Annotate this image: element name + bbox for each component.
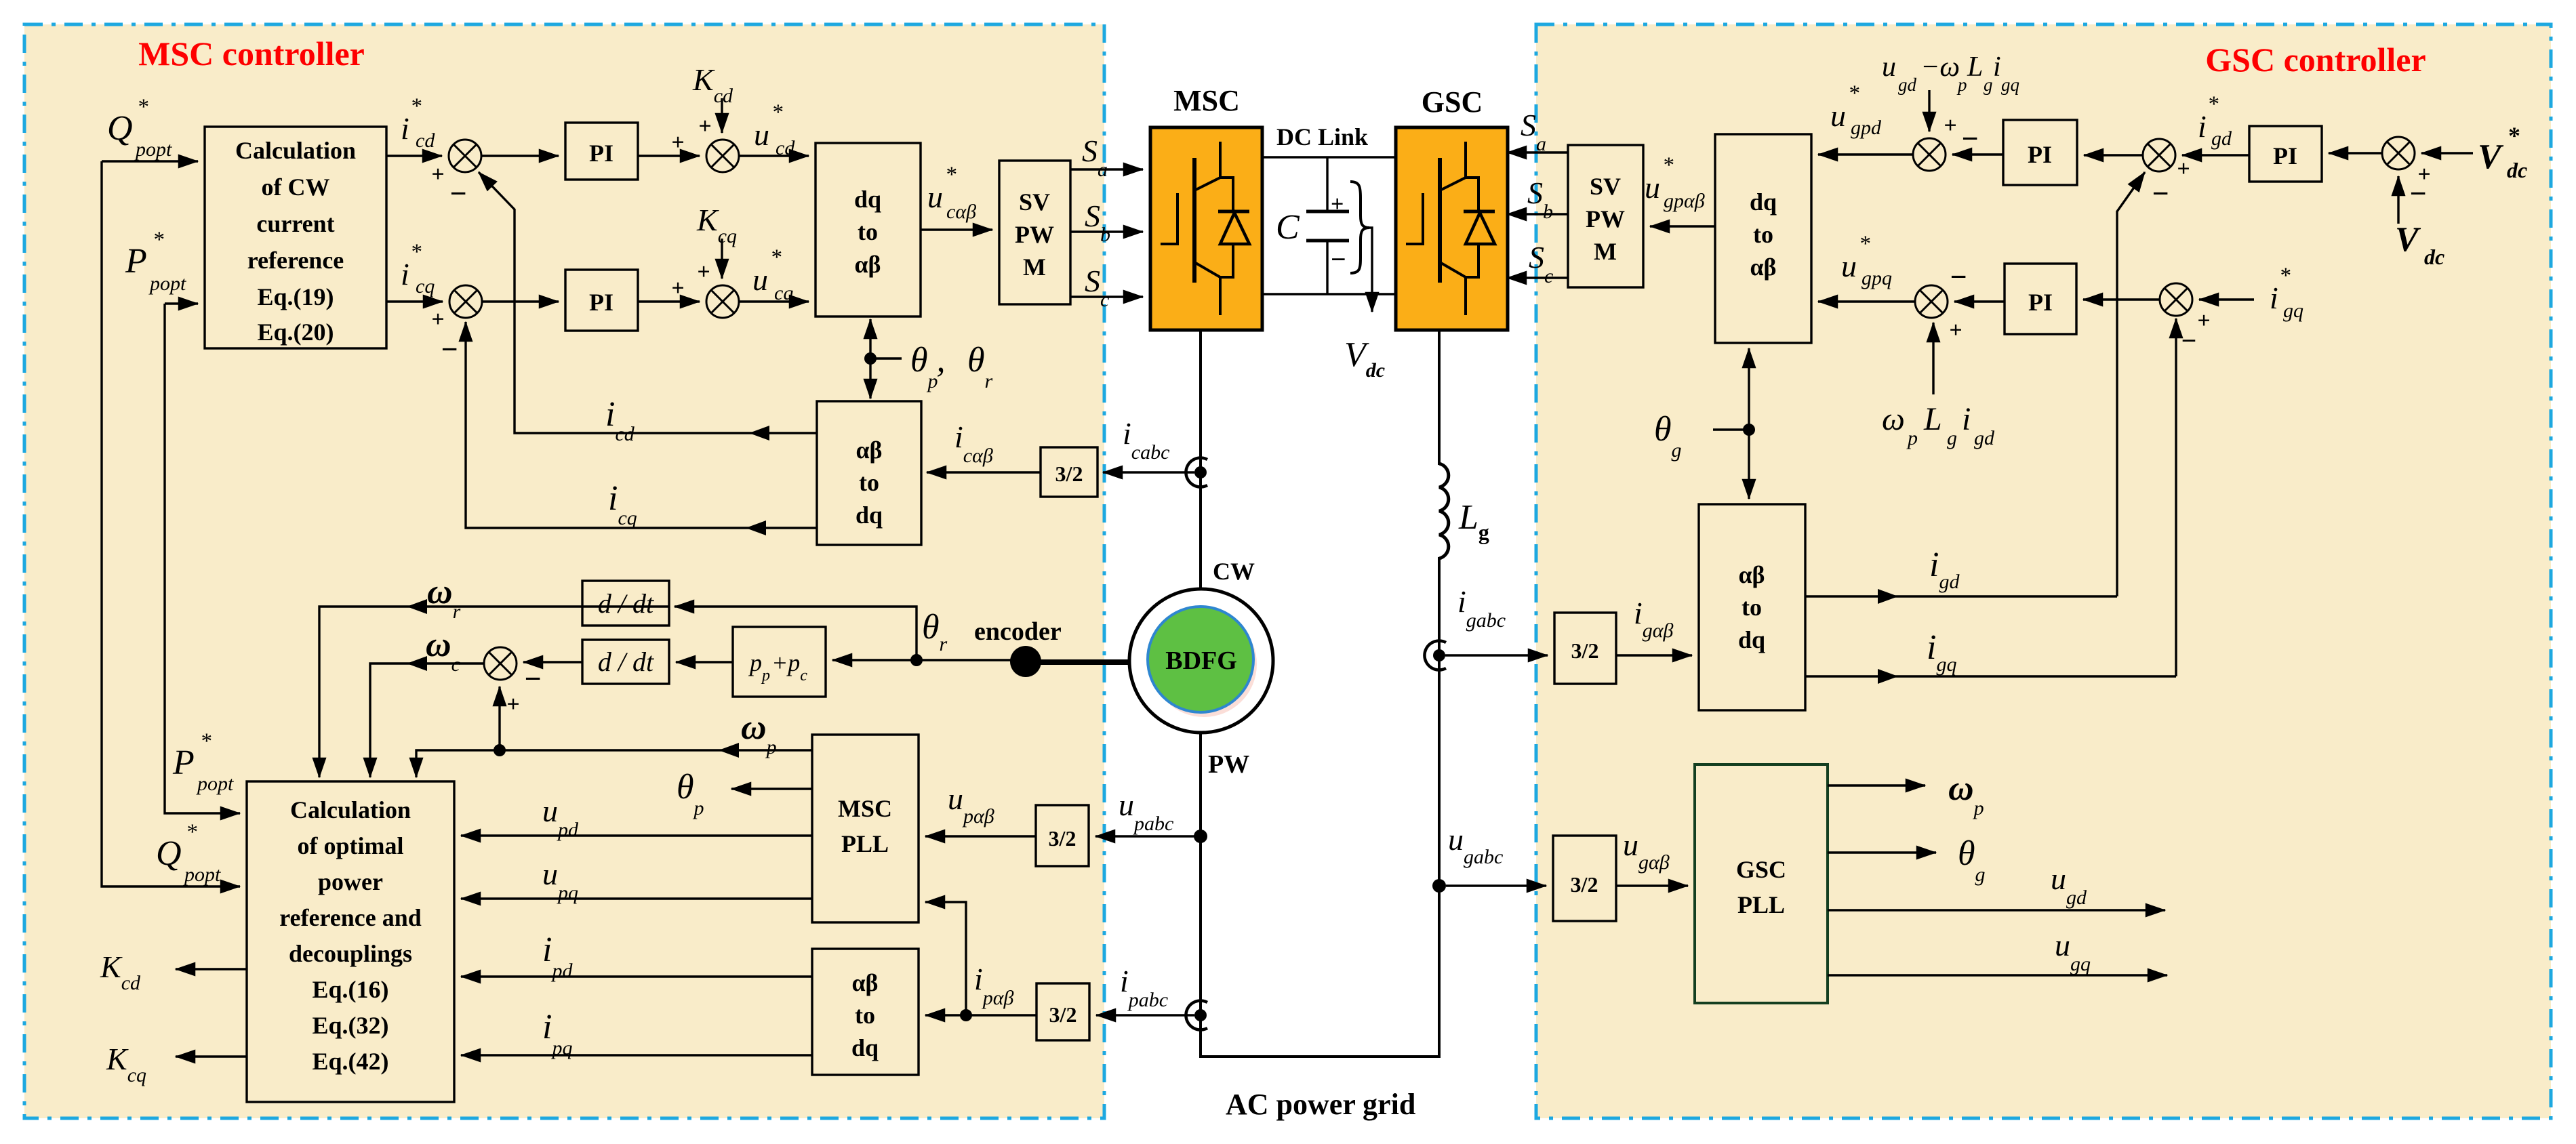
block: alpha-beta to dq (GSC) (1699, 504, 1805, 710)
svg-text:AC power grid: AC power grid (1226, 1088, 1415, 1121)
block: dq to alpha-beta (MSC) (816, 143, 921, 316)
block: PI (GSC d current) (2003, 120, 2077, 185)
svg-text:*: * (153, 228, 164, 252)
wire: S1 to PI1 (481, 155, 559, 157)
svg-text:−: − (1950, 260, 1967, 293)
svg-text:d / dt: d / dt (598, 588, 654, 619)
wire: theta_r from encoder to pp+pc (832, 659, 1020, 661)
svg-text:ω: ω (1882, 401, 1905, 437)
wire: Ppopt rail down (165, 304, 240, 813)
wire: u*gpab from dq box to SVPWM (1650, 225, 1715, 227)
svg-text:d / dt: d / dt (598, 647, 654, 677)
wire: ipab branch up into MSC PLL (925, 902, 966, 1015)
wire: PI to S9 (1954, 300, 2005, 302)
wire: S10 to PI (2083, 298, 2160, 300)
svg-text:u: u (1645, 170, 1660, 205)
wire: decoupling into S6 top (1928, 90, 1930, 131)
svg-text:gd: gd (2211, 127, 2232, 150)
GSC controller panel (dashed cyan frame, cream fill) (1536, 24, 2551, 1118)
svg-text:−: − (2181, 325, 2197, 356)
wire: i*cq from CW box to S2 (386, 300, 443, 302)
wire: upab from 3/2 to MSC PLL (925, 835, 1036, 837)
wire: S6 to dq box (u*gpd) (1818, 153, 1913, 155)
svg-text:P: P (125, 242, 147, 281)
wire: ipabc tap to 3/2 (1096, 1014, 1194, 1016)
wire: omega_p from MSC PLL across to optimal power box (416, 750, 812, 777)
svg-text:+: + (697, 260, 710, 285)
svg-text:*: * (945, 163, 957, 187)
svg-text:to: to (859, 469, 879, 496)
svg-text:+: + (671, 276, 684, 301)
wire: upd into optimal power box (461, 834, 812, 836)
wire: omega_c to optimal power box (370, 663, 484, 777)
wire: theta p/r double arrow between dq and ab blocks (869, 319, 871, 359)
svg-text:*: * (1848, 81, 1859, 106)
wire: Vdc feedback up into S8 (2397, 176, 2399, 224)
node: junction ipab branch (960, 1009, 972, 1021)
svg-text:+: + (671, 130, 684, 155)
wire: igq feedback up into S10 (2175, 319, 2177, 676)
node: junction on theta line (864, 352, 877, 365)
wire: u*cab from dq box to SVPWM (921, 228, 992, 230)
wire: upq into optimal power box (461, 897, 812, 899)
node: u_gabc tap on GSC leg (1432, 879, 1446, 893)
block: dq to alpha-beta (GSC) (1715, 134, 1811, 343)
summing junction S3 (ucd) (706, 140, 739, 172)
summing junction S10 (igq) (2160, 283, 2192, 316)
wire: S7 to PI (2084, 154, 2143, 156)
svg-text:i: i (401, 257, 409, 291)
svg-text:cd: cd (776, 137, 795, 159)
svg-text:i: i (1962, 401, 1971, 437)
wire: Kcd arrow into S3 (721, 98, 723, 133)
svg-text:reference and: reference and (279, 904, 422, 931)
wire: PI2 to S4 (638, 300, 700, 302)
svg-text:i: i (1993, 52, 2001, 83)
svg-text:+: + (431, 162, 444, 187)
svg-text:dq: dq (1750, 188, 1777, 216)
svg-text:Eq.(32): Eq.(32) (312, 1012, 388, 1039)
wire: MSC to CW winding (1199, 330, 1202, 589)
wire: icq feedback (to S2 from below) (466, 322, 817, 528)
svg-text:i: i (2198, 109, 2207, 144)
svg-text:decouplings: decouplings (289, 940, 412, 967)
wire: Kcq arrow into S4 (721, 239, 723, 279)
svg-text:to: to (858, 218, 878, 245)
svg-text:PI: PI (2273, 142, 2297, 169)
svg-text:cq: cq (774, 282, 793, 304)
svg-text:−: − (1961, 122, 1978, 155)
svg-text:PW: PW (1015, 221, 1054, 248)
summing junction S4 (ucq) (706, 285, 739, 318)
svg-text:gq: gq (2283, 300, 2303, 322)
wire: wpLgigd up into S9 (1932, 323, 1934, 394)
node: u_pabc tap on PW line (1194, 830, 1207, 843)
converter GSC (orange box with IGBT+diode) (1396, 127, 1508, 330)
svg-text:of optimal: of optimal (298, 832, 404, 859)
svg-text:dc: dc (2507, 158, 2527, 182)
wire: tick to theta label (870, 357, 902, 359)
svg-text:gd: gd (1974, 427, 1995, 449)
svg-text:dq: dq (851, 1034, 879, 1061)
svg-text:p: p (1956, 75, 1967, 95)
svg-text:MSC: MSC (1173, 84, 1240, 117)
wire: S4 to dq/ab box (739, 300, 809, 302)
wire: ipab from 3/2 to ab-dq box (925, 1014, 1037, 1016)
svg-text:αβ: αβ (1750, 253, 1776, 281)
svg-text:3/2: 3/2 (1055, 462, 1083, 486)
svg-text:g: g (1947, 427, 1957, 449)
svg-text:dq: dq (854, 186, 881, 213)
svg-text:*: * (1662, 153, 1674, 178)
svg-text:popt: popt (196, 773, 234, 795)
block: pp+pc (733, 627, 826, 697)
wire: ugabc tap to 3/2 (1446, 884, 1546, 886)
summing junction S8 (Vdc) (2382, 137, 2415, 169)
wire: theta_g tick (1713, 428, 1749, 430)
wire: theta_g up into dq-ab box (1748, 348, 1750, 430)
wire: encoder shaft to BDFG (1037, 659, 1130, 665)
svg-text:+: + (1949, 318, 1962, 343)
summing junction S9 (ugpq) (1915, 285, 1948, 318)
svg-text:−ω: −ω (1920, 52, 1960, 83)
svg-text:u: u (927, 180, 943, 214)
wire: GSC down leg lower (1438, 557, 1441, 1057)
wire: upabc tap to 3/2 (1095, 835, 1194, 837)
wire: S3 to dq/ab box (739, 155, 809, 157)
wire: DC link top rail (1262, 156, 1396, 158)
svg-text:BDFG: BDFG (1165, 647, 1237, 675)
node: encoder dot (1010, 646, 1041, 677)
svg-text:*: * (2508, 122, 2520, 149)
svg-text:current: current (256, 210, 334, 237)
wire: ugab 3/2 to GSC PLL (1616, 884, 1688, 886)
svg-text:αβ: αβ (856, 436, 882, 464)
wire: S9 to dq box (u*gpq) (1818, 300, 1915, 302)
wire: Sb to GSC (1507, 213, 1568, 215)
svg-text:u: u (752, 262, 768, 297)
block: 3/2 transform (ip) (1037, 983, 1089, 1040)
block: PI (DC voltage) (2249, 126, 2322, 182)
wire: BDFG to PW line (1199, 733, 1202, 1057)
wire: omega_p up into S5 (498, 687, 500, 750)
wire: icab from 3/2 to ab-dq box (927, 471, 1041, 473)
wire: Sb gate signal to MSC (1070, 230, 1143, 232)
wire: ipq into optimal power box (461, 1054, 812, 1056)
summing junction S6 (ugpd) (1913, 138, 1946, 171)
svg-text:encoder: encoder (974, 617, 1062, 646)
svg-text:i: i (401, 111, 409, 146)
svg-text:*: * (200, 729, 212, 754)
node: i_pabc measurement point on PW line (1186, 1001, 1207, 1030)
converter MSC (orange box with IGBT+diode) (1150, 127, 1262, 330)
svg-text:+: + (431, 307, 444, 332)
block: PI current controller d-axis (565, 123, 638, 180)
svg-text:*: * (137, 95, 148, 119)
svg-text:−: − (1331, 244, 1346, 274)
svg-text:L: L (1923, 401, 1942, 437)
block: SVPWM (MSC) (999, 161, 1070, 304)
node: i_gabc measurement point on GSC leg (1424, 641, 1446, 670)
svg-text:u: u (754, 117, 769, 152)
node: junction omega_p (494, 744, 506, 756)
svg-text:Eq.(19): Eq.(19) (257, 283, 334, 310)
svg-text:dq: dq (1738, 626, 1765, 653)
block: 3/2 transform (ic) (1041, 447, 1098, 497)
svg-text:*: * (770, 245, 782, 270)
wire: S2 to PI2 (482, 300, 559, 302)
svg-text:cd: cd (416, 129, 435, 152)
summing junction S2 (icq) (449, 285, 482, 318)
wire: PI to S6 (1952, 153, 2003, 155)
svg-text:PI: PI (2028, 289, 2053, 316)
block: Calculation of optimal power reference and decouplings (247, 781, 454, 1102)
svg-text:gd: gd (1898, 75, 1917, 95)
svg-text:reference: reference (247, 247, 344, 274)
svg-text:dq: dq (856, 502, 883, 529)
svg-text:M: M (1023, 253, 1046, 281)
svg-text:GSC: GSC (1736, 856, 1786, 883)
svg-text:+: + (1331, 192, 1344, 217)
block: alpha-beta to dq (MSC current) (817, 401, 921, 545)
svg-text:+: + (2197, 308, 2210, 333)
svg-text:popt: popt (134, 138, 172, 161)
svg-text:αβ: αβ (1738, 561, 1765, 588)
svg-text:3/2: 3/2 (1571, 872, 1598, 897)
svg-text:−: − (2152, 177, 2169, 210)
wire: S8 to PI(Vdc) (2329, 152, 2382, 154)
summing junction S1 (icd) (449, 140, 481, 172)
svg-text:+: + (2177, 157, 2190, 182)
svg-text:PLL: PLL (1737, 891, 1785, 918)
svg-text:*: * (2279, 264, 2291, 288)
wire: Kcq output (176, 1055, 247, 1057)
svg-text:C: C (1276, 208, 1300, 247)
wire: V*dc into S8 (2421, 152, 2473, 154)
svg-text:−: − (449, 177, 466, 210)
svg-text:*: * (1859, 232, 1870, 256)
svg-text:gpαβ: gpαβ (1664, 190, 1705, 212)
svg-text:popt: popt (148, 272, 186, 295)
wire: omega_r output to optimal power box (319, 607, 669, 777)
svg-text:p: p (1906, 427, 1918, 449)
svg-text:PLL: PLL (841, 830, 889, 857)
block: 3/2 transform (ug) (1553, 836, 1616, 921)
wire: d/dt2 to S5 (523, 661, 582, 663)
svg-text:PI: PI (2028, 141, 2052, 168)
svg-text:Eq.(42): Eq.(42) (312, 1048, 388, 1075)
svg-text:*: * (410, 94, 422, 119)
wire: i*cd from CW box to S1 (386, 155, 442, 157)
wire: DC link bottom rail (1262, 293, 1396, 295)
svg-text:*: * (771, 100, 783, 125)
machine BDFG (generator circles) (1129, 589, 1273, 733)
block: PI current controller q-axis (565, 270, 638, 331)
svg-text:gq: gq (2001, 75, 2019, 95)
svg-text:*: * (2207, 92, 2219, 117)
wire: Sa to GSC (1507, 151, 1568, 153)
wire: omega_p out of GSC PLL (1828, 784, 1925, 786)
block: SVPWM (GSC) (1568, 145, 1643, 287)
svg-text:to: to (855, 1002, 875, 1029)
wire: pp+pc to d/dt2 (676, 661, 733, 663)
wire: ugq out of GSC PLL (1828, 974, 2167, 976)
wire: Ppopt into CW box (165, 302, 198, 304)
wire: theta_r to d/dt1 (675, 607, 917, 660)
svg-text:3/2: 3/2 (1571, 638, 1599, 663)
svg-text:SV: SV (1019, 188, 1050, 216)
svg-text:g: g (1984, 75, 1993, 95)
svg-text:GSC controller: GSC controller (2205, 41, 2426, 79)
wire: igq from ab-dq box (1805, 675, 2176, 677)
svg-text:V: V (2478, 138, 2504, 176)
svg-text:MSC controller: MSC controller (138, 35, 365, 73)
svg-text:Q: Q (107, 109, 133, 148)
MSC controller panel (dashed cyan frame, cream fill) (24, 24, 1104, 1118)
svg-text:u: u (1882, 52, 1896, 83)
svg-text:αβ: αβ (851, 969, 878, 996)
svg-text:+: + (1944, 113, 1956, 138)
wire: Qpopt rail down left side (102, 161, 240, 886)
wire: Sc to GSC (1507, 277, 1568, 279)
svg-text:3/2: 3/2 (1049, 1002, 1077, 1027)
wire: icd feedback (to S1 via diagonal) (479, 172, 817, 433)
svg-text:power: power (318, 868, 383, 895)
wire: igab 3/2 to ab-dq (1616, 654, 1692, 656)
svg-text:popt: popt (183, 863, 221, 886)
svg-text:DC Link: DC Link (1276, 123, 1368, 150)
node: i_cabc measurement point on CW line (1186, 458, 1207, 487)
svg-text:gpd: gpd (1851, 117, 1882, 139)
block: d/dt (rotor speed) (582, 581, 669, 626)
svg-text:CW: CW (1213, 558, 1255, 585)
wire: ugd out of GSC PLL (1828, 909, 2165, 911)
svg-text:dc: dc (2424, 245, 2444, 269)
summing junction S5 (omega_c) (484, 647, 517, 680)
svg-text:u: u (1830, 98, 1846, 133)
block: PI (GSC q current) (2005, 264, 2076, 334)
inductor Lg (1439, 464, 1449, 558)
wire: PI1 to S3 (638, 155, 700, 157)
wire: Sa gate signal to MSC (1070, 168, 1143, 170)
svg-text:M: M (1594, 238, 1617, 265)
node: junction theta_g (1743, 424, 1755, 436)
svg-text:3/2: 3/2 (1049, 826, 1076, 851)
svg-text:i: i (2270, 281, 2278, 315)
svg-text:PI: PI (589, 140, 613, 167)
svg-text:+: + (698, 114, 711, 139)
svg-text:MSC: MSC (838, 795, 892, 822)
svg-text:αβ: αβ (854, 251, 881, 278)
svg-text:to: to (1753, 221, 1773, 248)
svg-text:V: V (2395, 220, 2421, 259)
wire: PI(Vdc) to S7 (2182, 154, 2249, 156)
svg-text:SV: SV (1590, 173, 1621, 200)
svg-text:to: to (1742, 594, 1762, 621)
wire: theta_g down into ab-dq box (1748, 430, 1750, 499)
wire: Sc gate signal to MSC (1070, 295, 1143, 298)
svg-text:*: * (186, 820, 197, 844)
svg-text:gpq: gpq (1861, 267, 1892, 289)
wire: icabc from CW tap to 3/2 (1103, 471, 1194, 473)
summing junction S7 (igd) (2143, 139, 2175, 171)
block: 3/2 transform (ig) (1554, 613, 1616, 684)
block: d/dt (control speed) (582, 640, 669, 684)
svg-text:Eq.(16): Eq.(16) (312, 976, 388, 1003)
svg-text:PW: PW (1586, 205, 1625, 232)
svg-text:PI: PI (589, 289, 613, 316)
svg-text:PW: PW (1208, 750, 1249, 779)
svg-text:P: P (172, 743, 195, 782)
svg-text:cαβ: cαβ (946, 201, 976, 223)
node: junction theta_r (910, 654, 923, 666)
wire: theta_p out of MSC PLL (731, 788, 812, 790)
wire: Kcd output (176, 968, 247, 970)
block: MSC PLL (812, 735, 919, 922)
svg-text:*: * (410, 240, 422, 264)
svg-text:cq: cq (416, 275, 435, 298)
svg-text:Q: Q (156, 834, 182, 873)
block: GSC PLL (1695, 764, 1828, 1003)
svg-text:+: + (506, 692, 519, 717)
svg-text:u: u (1841, 249, 1857, 283)
wire: AC grid bus (1199, 1055, 1441, 1058)
svg-text:Eq.(20): Eq.(20) (257, 319, 334, 346)
wire: i*gq into S10 (2199, 298, 2254, 300)
svg-text:GSC: GSC (1422, 85, 1483, 119)
block: Calculation of CW current reference (205, 127, 386, 348)
svg-text:Calculation: Calculation (235, 137, 356, 164)
block: alpha-beta to dq (PW current) (812, 949, 919, 1075)
wire: theta_g out of GSC PLL (1828, 851, 1936, 853)
svg-text:−: − (2409, 177, 2426, 210)
wire: GSC down leg upper (1438, 330, 1441, 465)
wire: Vdc tap with down arrow (1369, 228, 1372, 312)
wire: igabc tap to 3/2 (1445, 654, 1548, 656)
svg-text:Calculation: Calculation (290, 796, 411, 823)
svg-text:of CW: of CW (262, 173, 330, 201)
block: 3/2 transform (up) (1036, 805, 1089, 866)
wire: igd feedback diagonal into S7 (2117, 172, 2145, 596)
wire: Qpopt reference into CW box (102, 160, 198, 162)
wire: igd from ab-dq box (1805, 595, 2117, 597)
svg-text:−: − (441, 333, 458, 366)
svg-text:−: − (524, 662, 541, 695)
svg-text:L: L (1967, 52, 1983, 83)
wire: ipd into optimal power box (461, 975, 812, 977)
brace for Vdc measurement (1350, 182, 1369, 273)
capacitor C on DC link (1306, 157, 1349, 294)
